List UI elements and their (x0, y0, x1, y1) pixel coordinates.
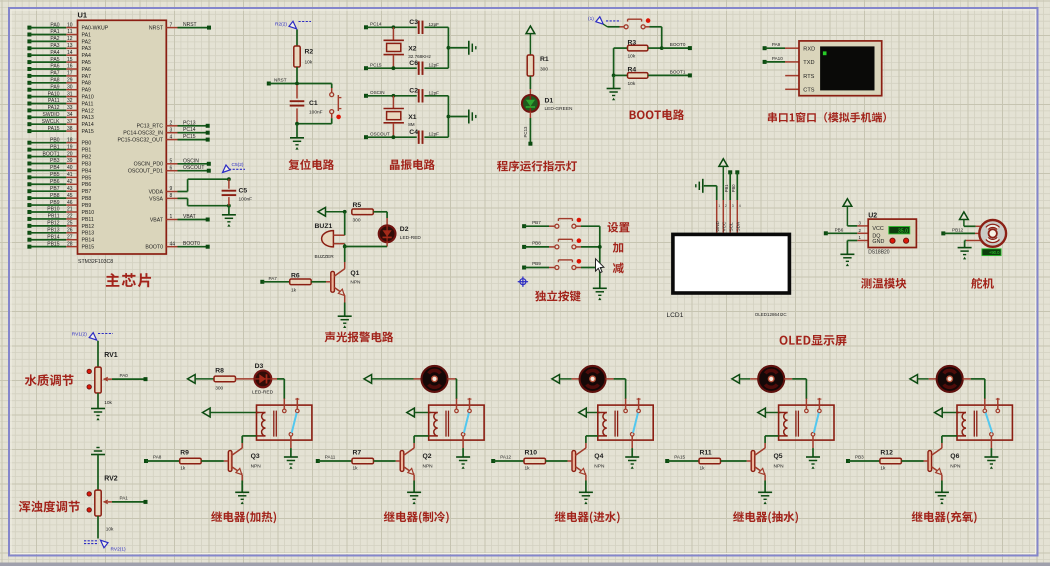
svg-text:PA9: PA9 (50, 84, 59, 90)
relay RL2 (429, 405, 484, 440)
svg-text:43: 43 (67, 186, 73, 192)
node PB6 wire to DQ pin 2 (824, 231, 828, 235)
ground reset circuit (296, 124, 298, 138)
svg-text:PA15: PA15 (674, 455, 685, 460)
node PA9 (763, 46, 767, 50)
label 浑浊度调节 (19, 501, 80, 513)
node PA12 (491, 459, 495, 463)
label 减 (613, 263, 624, 274)
svg-text:NRST: NRST (274, 77, 287, 82)
label 测温模块 (861, 278, 906, 289)
wire net SWDIO to U1 left pin 34 (27, 115, 31, 119)
svg-text:13: 13 (67, 43, 73, 49)
diode D3 LED-RED (236, 378, 255, 380)
label 水质调节 (25, 374, 74, 386)
svg-text:CTS: CTS (803, 88, 814, 94)
svg-text:16: 16 (67, 64, 73, 70)
U1 right pin 2 PC13_RTC (166, 125, 177, 127)
wire net PA5 to U1 left pin 15 (27, 60, 31, 64)
node NRST (267, 82, 271, 86)
svg-text:33: 33 (67, 105, 73, 111)
svg-text:BOOT1: BOOT1 (43, 151, 60, 157)
wire D2 to collector node (386, 242, 388, 246)
svg-text:Q4: Q4 (594, 453, 603, 460)
probe label RV2(1) (101, 540, 109, 548)
wire net PB10 to U1 left pin 21 (27, 210, 31, 214)
resistor R4 10k (614, 74, 628, 76)
svg-text:GND: GND (872, 239, 884, 245)
motor load Q6 (929, 378, 937, 380)
svg-text:RXD: RXD (803, 46, 815, 52)
svg-text:10k: 10k (628, 54, 636, 60)
node PA10 (763, 60, 767, 64)
wire net PA4 to U1 left pin 14 (27, 53, 31, 57)
wire net BOOT1 to U1 left pin 20 (27, 155, 31, 159)
capacitor C6 12pF (418, 62, 420, 75)
svg-text:PB15: PB15 (47, 241, 59, 247)
U2 temperature readout 35.0 (889, 227, 910, 234)
svg-text:BUZZER: BUZZER (315, 254, 335, 260)
svg-text:32.768KHz: 32.768KHz (408, 54, 431, 59)
transistor Q1 NPN (344, 247, 346, 263)
svg-text:C1: C1 (309, 100, 318, 107)
label 加 (613, 242, 623, 253)
wire button to C1 bottom (331, 114, 333, 119)
node PB0 wire to SDA (735, 170, 739, 174)
diode D2 LED-RED (379, 225, 396, 242)
svg-text:7: 7 (170, 22, 173, 28)
capacitor C3 12pF (418, 21, 420, 34)
svg-text:PB6: PB6 (50, 179, 60, 185)
svg-text:VSSA: VSSA (149, 196, 163, 202)
svg-text:PA2: PA2 (82, 39, 92, 45)
label 程序运行指示灯 (497, 161, 577, 172)
svg-text:PB1: PB1 (724, 184, 729, 193)
ground under Q5 (764, 475, 766, 481)
svg-text:11: 11 (67, 29, 72, 35)
resistor R3 10k (614, 47, 628, 49)
svg-text:PA6: PA6 (50, 64, 59, 70)
ground under Q1 (344, 295, 346, 302)
svg-text:12pF: 12pF (429, 132, 440, 137)
svg-text:PC14-OSC32_IN: PC14-OSC32_IN (123, 131, 163, 137)
resistor R2 10k (296, 30, 298, 47)
wire power to buzzer (344, 212, 346, 235)
svg-text:PA11: PA11 (48, 98, 60, 104)
wire net PB5 to U1 left pin 41 (27, 175, 31, 179)
node BOOT0 (662, 47, 690, 49)
node PB3 (846, 459, 850, 463)
svg-text:PB9: PB9 (50, 200, 60, 206)
svg-text:PC15-OSC32_OUT: PC15-OSC32_OUT (117, 138, 163, 144)
svg-text:10k: 10k (104, 400, 112, 406)
label 晶振电路 (390, 159, 435, 170)
power arrow Q2 top (364, 375, 372, 384)
wire D1 to PC13 node (529, 112, 531, 118)
svg-text:VDDA: VDDA (149, 189, 164, 195)
svg-text:PB8: PB8 (82, 196, 92, 202)
svg-text:PA12: PA12 (48, 105, 60, 111)
svg-text:OLED12864I2C: OLED12864I2C (755, 312, 788, 317)
label 主芯片 (106, 273, 151, 287)
svg-text:PB15: PB15 (82, 245, 95, 251)
svg-text:PA5: PA5 (50, 57, 59, 63)
wire U2 pin 1 GND (857, 240, 868, 242)
svg-text:PB10: PB10 (82, 210, 95, 216)
U1 right pin 6 OSCOUT_PD1 (166, 170, 177, 172)
svg-text:X1: X1 (408, 114, 417, 121)
svg-text:PA11: PA11 (325, 455, 336, 460)
capacitor C2 12pF (418, 89, 420, 102)
wire net PA0 to U1 left pin 10 (27, 26, 31, 30)
svg-text:PA15: PA15 (82, 129, 94, 135)
wire net PB9 to U1 left pin 46 (27, 203, 31, 207)
wire net PB7 to U1 left pin 43 (27, 189, 31, 193)
svg-text:1k: 1k (353, 465, 359, 471)
svg-text:20: 20 (67, 151, 73, 157)
label 串口1窗口模拟手机端 (768, 112, 886, 122)
svg-text:PB0: PB0 (731, 184, 736, 193)
svg-text:R12: R12 (880, 450, 893, 457)
wire net PA12 to U1 left pin 33 (27, 108, 31, 112)
wire crystal load to ground (447, 96, 449, 137)
OLED pins GND VCC SCL SDA (716, 200, 718, 233)
virtual terminal CTS pin (785, 88, 799, 90)
wire relay coil to collector (586, 435, 598, 437)
svg-text:22: 22 (67, 214, 73, 220)
wire net PB8 to U1 left pin 45 (27, 196, 31, 200)
svg-text:BOOT1: BOOT1 (670, 69, 686, 74)
svg-text:LED-RED: LED-RED (252, 390, 274, 396)
svg-text:PB13: PB13 (47, 227, 59, 233)
svg-text:38: 38 (67, 126, 73, 132)
push button PB7 (555, 224, 559, 228)
svg-text:PB6: PB6 (82, 182, 92, 188)
svg-text:R3: R3 (628, 39, 637, 46)
svg-text:SWCLK: SWCLK (42, 119, 60, 125)
svg-text:27: 27 (67, 234, 73, 240)
power arrow alarm circuit (318, 207, 326, 216)
wire net PB15 to U1 left pin 28 (27, 245, 31, 249)
svg-text:21: 21 (67, 207, 73, 213)
svg-text:VBAT: VBAT (183, 214, 196, 220)
svg-text:R7: R7 (353, 450, 362, 457)
transistor Q4 NPN (585, 443, 587, 448)
diode D1 LED-GREEN (522, 95, 539, 112)
svg-text:8: 8 (170, 193, 173, 199)
push button PB9 (555, 266, 559, 270)
svg-text:R9: R9 (180, 450, 189, 457)
svg-text:C5: C5 (239, 188, 248, 195)
svg-text:12pF: 12pF (429, 63, 440, 68)
ground under Q3 (241, 475, 243, 481)
svg-text:U2: U2 (868, 212, 877, 219)
node PA1 (112, 501, 146, 503)
svg-text:1k: 1k (291, 288, 297, 294)
svg-text:1: 1 (718, 204, 720, 208)
svg-text:NPN: NPN (251, 464, 262, 470)
node PA8 (144, 459, 148, 463)
resistor R7 1k (352, 458, 374, 464)
wire net PA15 to U1 left pin 38 (27, 129, 31, 133)
power +VCC above R1 (526, 26, 535, 34)
label 复位电路 (289, 159, 335, 170)
svg-text:PA1: PA1 (120, 496, 129, 501)
svg-text:10k: 10k (628, 81, 636, 87)
svg-text:X2: X2 (408, 46, 417, 53)
svg-text:30: 30 (67, 84, 73, 90)
svg-text:PA8: PA8 (82, 81, 92, 87)
wire load to relay contact (456, 379, 458, 399)
svg-text:BOOT0: BOOT0 (145, 245, 163, 251)
svg-text:3: 3 (170, 127, 173, 133)
svg-text:+90.0: +90.0 (989, 250, 1000, 255)
svg-text:PB12: PB12 (47, 221, 59, 227)
svg-text:PB1: PB1 (50, 144, 60, 150)
svg-text:C3: C3 (409, 19, 418, 26)
svg-text:PB0: PB0 (82, 141, 92, 147)
svg-text:12pF: 12pF (429, 22, 440, 27)
svg-text:12pF: 12pF (429, 90, 440, 95)
temperature sensor U2 DS18B20 body (868, 219, 916, 247)
svg-text:1k: 1k (700, 465, 706, 471)
svg-text:25: 25 (67, 221, 73, 227)
svg-text:PA1: PA1 (50, 29, 59, 35)
svg-text:PA3: PA3 (82, 46, 92, 52)
node PB1 wire to SCL (728, 170, 732, 174)
svg-text:TXD: TXD (803, 60, 814, 66)
svg-text:PB5: PB5 (50, 172, 60, 178)
svg-text:PB0: PB0 (50, 137, 60, 143)
svg-text:NPN: NPN (774, 464, 785, 470)
svg-text:SWDIO: SWDIO (43, 112, 60, 118)
wire net PA10 to U1 left pin 31 (27, 95, 31, 99)
svg-text:Q6: Q6 (950, 453, 959, 460)
label 继电器(加热) (211, 511, 276, 523)
svg-text:VCC: VCC (721, 221, 726, 232)
wire load to relay contact (283, 379, 285, 399)
svg-text:(1): (1) (588, 16, 594, 22)
relay RL5 (779, 405, 834, 440)
svg-text:100nF: 100nF (239, 197, 253, 203)
svg-text:100nF: 100nF (309, 110, 323, 116)
svg-text:LED-RED: LED-RED (400, 235, 422, 241)
node PB7 (522, 224, 526, 228)
ground OLED GND pin (702, 179, 704, 193)
label 独立按键 (535, 291, 581, 302)
svg-text:39: 39 (67, 158, 73, 164)
resistor R1 300 (527, 55, 533, 76)
wire buzzer to collector node (344, 244, 346, 247)
svg-text:NPN: NPN (423, 464, 434, 470)
svg-text:SDA: SDA (735, 221, 740, 232)
svg-text:OSCIN_PD0: OSCIN_PD0 (134, 162, 164, 168)
power arrow relay coil (579, 408, 587, 417)
resistor R10 1k (524, 458, 546, 464)
svg-text:PA10: PA10 (772, 56, 783, 61)
label 继电器(进水) (555, 511, 620, 523)
svg-text:15: 15 (67, 57, 73, 63)
transistor Q5 NPN (764, 443, 766, 448)
svg-text:DS18B20: DS18B20 (868, 249, 890, 255)
svg-text:14: 14 (67, 50, 73, 56)
resistor R12 1k (880, 458, 902, 464)
svg-text:PA6: PA6 (82, 67, 92, 73)
capacitor C1 100nF (296, 85, 298, 99)
svg-text:R2(2): R2(2) (275, 22, 287, 28)
svg-text:2: 2 (170, 121, 173, 127)
svg-text:PB11: PB11 (48, 214, 60, 220)
svg-text:PA0: PA0 (120, 373, 129, 378)
U1 pin 8 VSSA wire (166, 197, 177, 199)
crystal X1 8M (392, 96, 394, 109)
svg-text:PB7: PB7 (50, 186, 60, 192)
svg-text:34: 34 (67, 112, 73, 118)
svg-text:D1: D1 (545, 98, 554, 105)
wire R3 to R4 left rail (613, 48, 615, 75)
svg-text:PA4: PA4 (50, 50, 59, 56)
svg-text:BOOT0: BOOT0 (183, 241, 200, 247)
power arrow relay coil (758, 408, 766, 417)
svg-text:2: 2 (725, 204, 727, 208)
svg-text:10: 10 (67, 22, 73, 28)
servo motor body (979, 220, 1006, 247)
svg-text:6: 6 (170, 165, 173, 171)
svg-text:PA7: PA7 (82, 74, 92, 80)
wire net PA7 to U1 left pin 17 (27, 74, 31, 78)
svg-text:9: 9 (170, 186, 173, 192)
wire net PB14 to U1 left pin 27 (27, 238, 31, 242)
transistor Q6 NPN (941, 443, 943, 448)
power arrow relay coil (407, 408, 415, 417)
svg-text:NPN: NPN (594, 464, 605, 470)
svg-text:300: 300 (353, 217, 361, 223)
label 继电器(抽水) (733, 511, 798, 523)
svg-text:OSCOUT: OSCOUT (370, 132, 390, 137)
wire net PA6 to U1 left pin 16 (27, 67, 31, 71)
svg-text:PA8: PA8 (153, 455, 162, 460)
svg-text:D2: D2 (400, 226, 409, 233)
U1 right pin 5 OSCIN_PD0 (166, 163, 177, 165)
node PC15 (364, 66, 368, 70)
U1 right pin 7 NRST (166, 27, 177, 29)
wire relay coil to collector (765, 435, 779, 437)
svg-text:PA7: PA7 (50, 71, 59, 77)
capacitor C5 100nF (227, 177, 231, 181)
push button BOOT (603, 24, 607, 27)
crystal X2 32.768KHz (392, 27, 394, 40)
svg-text:NPN: NPN (350, 280, 361, 286)
svg-text:PB2: PB2 (82, 154, 92, 160)
svg-text:RTS: RTS (803, 74, 814, 80)
svg-text:1k: 1k (525, 465, 531, 471)
wire net SWCLK to U1 left pin 37 (27, 122, 31, 126)
svg-text:PA9: PA9 (772, 42, 781, 47)
label 设置 (608, 222, 630, 233)
svg-text:PC15: PC15 (370, 63, 382, 68)
svg-text:PB8: PB8 (50, 193, 60, 199)
ground under Q6 (941, 475, 943, 481)
svg-text:VCC: VCC (872, 226, 883, 232)
svg-text:PA0-WKUP: PA0-WKUP (82, 26, 109, 32)
wire crystal load to ground (447, 27, 449, 68)
power arrow Q6 top (910, 375, 918, 384)
wire probe to RV1 (97, 341, 99, 367)
svg-text:PA3: PA3 (50, 43, 59, 49)
motor load Q5 (750, 378, 758, 380)
svg-text:PA2: PA2 (50, 36, 59, 42)
node OSCOUT (364, 135, 368, 139)
label 声光报警电路 (325, 332, 394, 343)
svg-text:PA7: PA7 (269, 276, 278, 281)
svg-text:8M: 8M (408, 122, 415, 127)
svg-text:PB9: PB9 (82, 203, 92, 209)
wire relay coil to collector (942, 435, 957, 437)
relay RL4 (598, 405, 653, 440)
svg-text:32: 32 (67, 98, 73, 104)
svg-text:R11: R11 (700, 450, 712, 457)
wire servo GND pin (966, 240, 981, 242)
wire net PB3 to U1 left pin 39 (27, 161, 31, 165)
svg-text:12: 12 (67, 36, 73, 42)
svg-text:45: 45 (67, 193, 73, 199)
power arrow relay coil (203, 408, 211, 417)
svg-text:Q1: Q1 (350, 270, 359, 277)
svg-text:46: 46 (67, 200, 73, 206)
svg-text:PB6: PB6 (835, 228, 844, 233)
wire VCC to U2 pin 3 (847, 225, 857, 227)
svg-text:PA14: PA14 (82, 122, 94, 128)
svg-text:PB4: PB4 (82, 168, 92, 174)
wire relay coil to collector (242, 435, 256, 437)
svg-text:PB9: PB9 (532, 261, 541, 266)
svg-text:RV1: RV1 (104, 352, 118, 359)
svg-text:PB3: PB3 (855, 455, 864, 460)
svg-text:GND: GND (715, 220, 720, 231)
wire load to relay contact (805, 379, 807, 399)
resistor R9 1k (180, 458, 202, 464)
svg-text:PB8: PB8 (532, 241, 541, 246)
ground relay contact (631, 448, 633, 457)
svg-text:PB13: PB13 (82, 231, 95, 237)
svg-text:OSCIN: OSCIN (183, 158, 199, 164)
wire R1 to D1 (529, 76, 531, 89)
svg-text:PB3: PB3 (50, 158, 60, 164)
svg-text:5: 5 (170, 159, 173, 165)
wire relay coil to collector (414, 435, 429, 437)
label 继电器(充氧) (912, 511, 977, 523)
mouse cursor (596, 259, 604, 273)
svg-text:PA1: PA1 (82, 32, 92, 38)
virtual terminal RTS pin (785, 75, 799, 77)
svg-text:RV2: RV2 (104, 475, 118, 482)
ground relay contact (462, 448, 464, 457)
svg-text:PA13: PA13 (82, 115, 94, 121)
svg-text:Q2: Q2 (423, 453, 432, 460)
wire net PB1 to U1 left pin 19 (27, 148, 31, 152)
ground RV1 (97, 393, 99, 408)
ground above RV2 (91, 454, 105, 456)
svg-text:41: 41 (67, 172, 73, 178)
terminal screen (820, 46, 874, 90)
svg-text:3: 3 (732, 204, 734, 208)
power arrow Q3 top (188, 375, 196, 384)
svg-text:C6: C6 (409, 60, 418, 67)
svg-text:C4: C4 (409, 129, 418, 136)
wire net PA1 to U1 left pin 11 (27, 33, 31, 37)
node PA15 (665, 459, 669, 463)
svg-text:42: 42 (67, 179, 73, 185)
